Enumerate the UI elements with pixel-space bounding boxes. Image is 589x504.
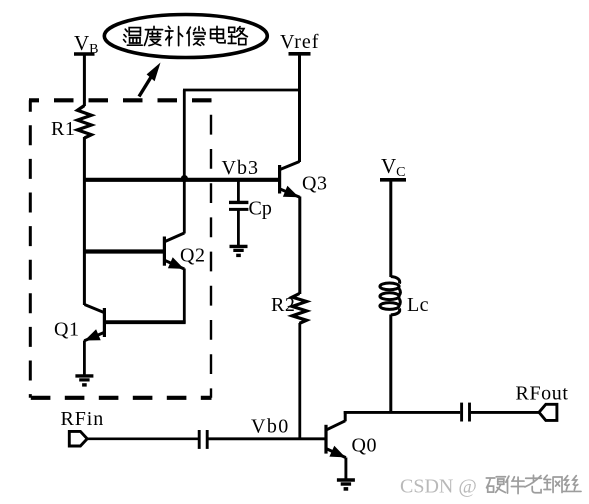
transistor Q2 — [164, 233, 184, 269]
svg-text:Vref: Vref — [280, 31, 319, 53]
wire VC to Lc — [389, 180, 392, 277]
wire Q0 collector riser — [344, 411, 347, 421]
svg-text:Lc: Lc — [407, 294, 429, 316]
wire Q0 collector to output cap — [344, 411, 460, 414]
capacitor Cp — [229, 202, 248, 209]
wire Vb3 to Cp — [237, 180, 240, 201]
wire RFin to input cap — [87, 437, 198, 440]
svg-text:CSDN @: CSDN @ — [400, 476, 477, 498]
output port RFout — [539, 404, 557, 420]
wire Q0 emitter to ground — [344, 458, 347, 480]
wire R2 to node Vb0 — [298, 323, 301, 440]
resistor R1 — [77, 106, 91, 139]
output coupling capacitor — [462, 403, 470, 422]
annotation text 温度补偿电路 — [124, 26, 248, 45]
wire R1 to Q1 collector — [83, 137, 86, 305]
wire Cp to ground — [237, 211, 240, 246]
supply Vref bar — [289, 52, 311, 56]
svg-text:Q0: Q0 — [352, 434, 377, 456]
wire VB to R1 — [83, 54, 86, 106]
junction dot — [181, 175, 188, 182]
svg-text:R2: R2 — [271, 294, 295, 316]
supply VC bar — [380, 178, 406, 182]
wire top rail to Vref — [183, 89, 300, 92]
wire Q2 emitter down to Q1 base — [183, 269, 186, 324]
wire Q1 emitter to ground — [83, 341, 86, 376]
svg-text:Cp: Cp — [249, 198, 272, 220]
transistor Q1 — [84, 305, 104, 341]
input port RFin — [69, 431, 87, 446]
ground (Cp) — [230, 246, 248, 255]
wire Vref to Q3 collector — [298, 54, 301, 162]
wire Q2 collector up — [183, 90, 186, 234]
ground (Q1) — [75, 376, 93, 385]
wire Lc to collector node — [389, 315, 392, 414]
svg-text:RFin: RFin — [61, 408, 105, 430]
svg-text:R1: R1 — [51, 118, 75, 140]
svg-text:Vb3: Vb3 — [222, 157, 259, 179]
annotation arrow — [139, 63, 161, 97]
inductor Lc — [380, 277, 400, 315]
ground (Q0) — [337, 480, 355, 489]
resistor R2 — [292, 294, 306, 324]
wire output cap to RFout — [471, 411, 539, 414]
input coupling capacitor — [199, 430, 207, 449]
wire input cap to Q0 base — [208, 437, 325, 440]
svg-text:Q2: Q2 — [180, 245, 205, 267]
transistor Q3 — [280, 162, 300, 198]
svg-text:Q1: Q1 — [54, 319, 79, 341]
svg-text:Q3: Q3 — [302, 172, 327, 194]
svg-text:VC: VC — [381, 154, 406, 180]
wire node Vb3 (base rail to Q3) — [83, 178, 279, 182]
svg-text:RFout: RFout — [516, 383, 569, 405]
wire Q1 base — [104, 320, 185, 324]
wire Q3 emitter to R2 — [298, 197, 301, 295]
svg-text:Vb0: Vb0 — [251, 416, 290, 438]
transistor Q0 — [326, 421, 346, 458]
annotation ellipse 温度补偿电路 (temperature compensation circuit) — [104, 15, 267, 58]
dashed box: temperature compensation circuit — [29, 100, 212, 398]
wire Q2 base — [83, 249, 164, 253]
supply VB bar — [74, 52, 95, 55]
